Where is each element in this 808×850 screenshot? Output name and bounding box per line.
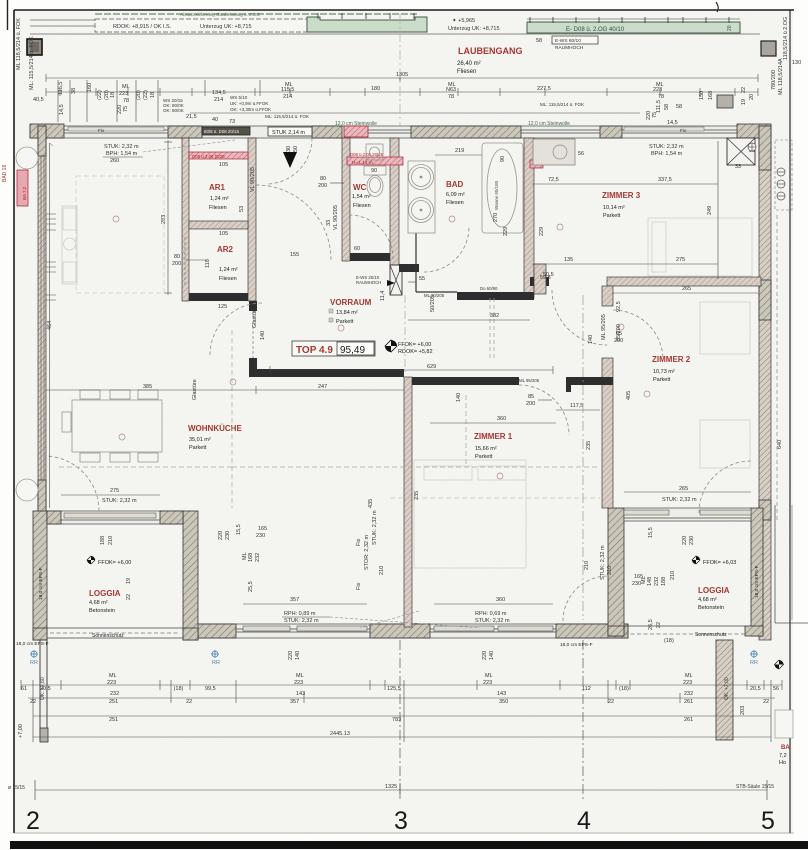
svg-text:BAD: BAD	[446, 180, 464, 189]
svg-text:STUK: 2,32 m: STUK: 2,32 m	[649, 144, 684, 150]
svg-text:629: 629	[427, 364, 436, 370]
svg-text:H=1,14 m: H=1,14 m	[352, 160, 373, 166]
svg-text:20,5: 20,5	[40, 686, 51, 692]
svg-text:VORRAUM: VORRAUM	[330, 298, 372, 307]
svg-text:11,4: 11,4	[380, 291, 386, 301]
svg-text:85/200: 85/200	[616, 324, 622, 341]
svg-text:464: 464	[47, 321, 53, 330]
svg-text:5: 5	[761, 807, 775, 835]
svg-text:RPH: 0,89 m: RPH: 0,89 m	[284, 611, 316, 617]
svg-text:19: 19	[126, 578, 132, 584]
svg-text:210: 210	[607, 566, 613, 575]
svg-text:229: 229	[503, 227, 509, 236]
svg-text:STUK: 2,32 m: STUK: 2,32 m	[102, 498, 137, 504]
svg-text:140: 140	[260, 331, 266, 340]
svg-text:223: 223	[683, 680, 692, 686]
svg-text:UK: +0,9m ü.FFOK: UK: +0,9m ü.FFOK	[230, 101, 268, 106]
svg-text:Parkett: Parkett	[475, 454, 493, 460]
svg-text:105: 105	[219, 162, 228, 168]
svg-text:232: 232	[110, 691, 119, 697]
svg-text:Fix: Fix	[356, 538, 362, 546]
svg-text:261: 261	[684, 699, 693, 705]
svg-text:Parkett: Parkett	[653, 377, 671, 383]
svg-text:WOHNKÜCHE: WOHNKÜCHE	[188, 424, 242, 433]
svg-text:251: 251	[109, 717, 118, 723]
svg-text:265: 265	[679, 486, 688, 492]
svg-text:223: 223	[107, 680, 116, 686]
svg-text:RPH: 0,69 m: RPH: 0,69 m	[475, 611, 507, 617]
svg-text:STUK: 2,32 m: STUK: 2,32 m	[372, 510, 378, 545]
svg-text:118,5/214 ü 2.OG: 118,5/214 ü 2.OG	[783, 17, 789, 60]
svg-text:223: 223	[483, 680, 492, 686]
svg-text:(22): (22)	[97, 90, 103, 100]
svg-text:90: 90	[371, 168, 377, 174]
svg-text:VL 90/205: VL 90/205	[333, 205, 339, 230]
svg-text:|18|: |18|	[174, 686, 183, 692]
svg-text:20,5: 20,5	[750, 686, 761, 692]
svg-text:ML: ML	[122, 84, 130, 90]
svg-text:12,0 cm Steinwolle: 12,0 cm Steinwolle	[335, 121, 377, 127]
svg-text:BAD 18: BAD 18	[2, 165, 8, 182]
svg-text:18,0 cm EPS-F: 18,0 cm EPS-F	[38, 567, 44, 600]
svg-text:STUK 2,14 m: STUK 2,14 m	[272, 130, 305, 136]
svg-text:RR: RR	[30, 660, 38, 666]
svg-text:235: 235	[586, 441, 592, 450]
svg-text:232: 232	[654, 577, 660, 586]
svg-text:ML 95/205: ML 95/205	[601, 314, 607, 340]
svg-text:200: 200	[318, 183, 327, 189]
svg-text:35,01 m²: 35,01 m²	[189, 437, 211, 443]
svg-text:143: 143	[497, 691, 506, 697]
svg-text:33: 33	[326, 220, 332, 226]
svg-text:203: 203	[740, 706, 746, 715]
svg-text:230: 230	[225, 531, 231, 540]
svg-text:RR: RR	[212, 660, 220, 666]
svg-text:58: 58	[536, 38, 542, 44]
svg-text:4,68 m²: 4,68 m²	[698, 597, 717, 603]
svg-text:143: 143	[296, 691, 305, 697]
svg-text:ML: ML	[109, 673, 117, 679]
svg-text:1,54 m²: 1,54 m²	[352, 194, 371, 200]
svg-text:230: 230	[256, 533, 265, 539]
svg-text:Unterzug UK: +8,715: Unterzug UK: +8,715	[448, 26, 500, 32]
svg-text:14,5: 14,5	[59, 104, 65, 115]
svg-text:140: 140	[489, 651, 495, 660]
svg-text:249: 249	[707, 206, 713, 215]
svg-text:168: 168	[708, 91, 714, 100]
svg-text:150: 150	[699, 91, 705, 100]
svg-text:LOGGIA: LOGGIA	[698, 586, 730, 595]
svg-text:125,5: 125,5	[387, 686, 401, 692]
svg-text:260: 260	[110, 158, 119, 164]
svg-text:FFOK= +6,00: FFOK= +6,00	[98, 560, 131, 566]
svg-text:220: 220	[218, 531, 224, 540]
svg-text:247: 247	[318, 384, 327, 390]
svg-text:50,5: 50,5	[543, 272, 554, 278]
svg-text:385: 385	[143, 384, 152, 390]
svg-text:OK: 80/0K: OK: 80/0K	[163, 108, 184, 113]
svg-text:80: 80	[320, 176, 326, 182]
svg-text:RDOK: +8,915 / OK I.S.: RDOK: +8,915 / OK I.S.	[113, 24, 172, 30]
svg-text:251: 251	[109, 699, 118, 705]
svg-text:78: 78	[123, 98, 129, 104]
svg-text:LOGGIA: LOGGIA	[89, 589, 121, 598]
svg-text:435: 435	[368, 499, 374, 508]
svg-text:(18): (18)	[619, 686, 629, 692]
svg-text:350: 350	[499, 699, 508, 705]
svg-text:(18): (18)	[664, 638, 674, 644]
svg-text:Betonstein: Betonstein	[89, 608, 115, 614]
svg-text:38: 38	[71, 88, 77, 94]
svg-text:270: 270	[493, 213, 499, 222]
svg-text:Glastüre: Glastüre	[252, 307, 258, 328]
svg-text:232: 232	[255, 553, 261, 562]
svg-text:50/205: 50/205	[430, 295, 436, 312]
svg-text:220: 220	[682, 536, 688, 545]
svg-text:230: 230	[689, 536, 695, 545]
svg-text:LAUBENGANG: LAUBENGANG	[458, 46, 523, 56]
svg-text:22: 22	[608, 699, 614, 705]
svg-text:111,5: 111,5	[656, 100, 662, 113]
svg-text:(22): (22)	[143, 90, 149, 100]
svg-text:ML: ML	[296, 673, 304, 679]
svg-text:BPH: 1,54 m: BPH: 1,54 m	[106, 151, 138, 157]
svg-text:18,0 cm EPS-F: 18,0 cm EPS-F	[754, 565, 760, 598]
svg-text:72,5: 72,5	[548, 177, 559, 183]
svg-text:18,0 cm EPS-F: 18,0 cm EPS-F	[16, 641, 49, 647]
svg-text:7,2: 7,2	[779, 753, 787, 759]
svg-text:RR: RR	[750, 660, 758, 666]
svg-text:✦ +5,965: ✦ +5,965	[452, 17, 475, 24]
svg-text:10,73 m²: 10,73 m²	[653, 369, 675, 375]
svg-text:90: 90	[500, 156, 506, 162]
svg-text:Sonnenschutz: Sonnenschutz	[695, 632, 727, 638]
svg-text:ZIMMER 3: ZIMMER 3	[602, 191, 641, 200]
svg-text:210: 210	[670, 571, 676, 580]
svg-text:Parkett: Parkett	[603, 213, 621, 219]
svg-text:227,5: 227,5	[537, 86, 551, 92]
svg-text:Fix: Fix	[98, 128, 105, 134]
svg-text:Wanne 80/180: Wanne 80/180	[494, 180, 499, 210]
svg-text:RDOK= +5,82: RDOK= +5,82	[398, 349, 433, 355]
svg-text:265: 265	[682, 286, 691, 292]
svg-text:219: 219	[455, 148, 464, 154]
svg-text:BA 7,2: BA 7,2	[22, 186, 27, 200]
svg-text:+7,00: +7,00	[18, 724, 24, 738]
svg-text:40: 40	[212, 117, 218, 123]
svg-text:140: 140	[456, 393, 462, 402]
svg-text:160: 160	[87, 83, 93, 92]
svg-text:30: 30	[286, 146, 292, 152]
svg-text:21,5: 21,5	[186, 114, 197, 120]
svg-text:26,5: 26,5	[648, 619, 654, 630]
svg-text:223: 223	[653, 87, 662, 93]
svg-text:4,68 m²: 4,68 m²	[89, 600, 108, 606]
svg-text:56: 56	[578, 151, 584, 157]
svg-text:AR1: AR1	[209, 183, 226, 192]
svg-text:Fix: Fix	[356, 582, 362, 590]
svg-text:E-WS 60/10: E-WS 60/10	[555, 38, 581, 44]
svg-text:360: 360	[496, 597, 505, 603]
svg-text:STB-Säule 15/15: STB-Säule 15/15	[736, 784, 774, 790]
svg-text:235: 235	[414, 491, 420, 500]
svg-text:15,5: 15,5	[236, 524, 242, 535]
svg-text:Fliesen: Fliesen	[219, 276, 237, 282]
svg-text:115,5: 115,5	[58, 82, 64, 95]
svg-text:210: 210	[108, 536, 114, 545]
svg-text:Fix: Fix	[680, 128, 687, 134]
svg-text:6,09 m²: 6,09 m²	[446, 192, 465, 198]
svg-text:357: 357	[290, 699, 299, 705]
svg-text:135: 135	[564, 257, 573, 263]
svg-text:BPH: 1,54 m: BPH: 1,54 m	[651, 151, 683, 157]
svg-text:230: 230	[632, 581, 641, 587]
svg-text:210: 210	[584, 561, 590, 570]
svg-text:N63: N63	[446, 87, 456, 93]
svg-text:55: 55	[419, 276, 425, 282]
svg-text:275: 275	[676, 257, 685, 263]
svg-text:15,66 m²: 15,66 m²	[475, 446, 497, 452]
svg-text:1325: 1325	[385, 784, 397, 790]
svg-text:3: 3	[394, 807, 408, 835]
svg-text:Fliesen: Fliesen	[209, 205, 227, 211]
svg-text:640: 640	[777, 440, 783, 449]
svg-text:FFOK= +6,03: FFOK= +6,03	[703, 560, 736, 566]
svg-text:OK: +3,30m ü.FFOK: OK: +3,30m ü.FFOK	[230, 107, 271, 112]
svg-text:STUK: 2,32 m: STUK: 2,32 m	[662, 497, 697, 503]
svg-text:220: 220	[288, 651, 294, 660]
svg-text:200: 200	[172, 261, 181, 267]
svg-text:FFOK= +6,00: FFOK= +6,00	[398, 342, 431, 348]
svg-text:STUK: 2,32 m: STUK: 2,32 m	[284, 618, 319, 624]
svg-text:99,5: 99,5	[205, 686, 216, 692]
svg-text:53: 53	[239, 206, 245, 212]
svg-text:180: 180	[371, 86, 380, 92]
svg-text:Glastüre: Glastüre	[192, 379, 198, 400]
svg-text:25,5: 25,5	[248, 581, 254, 592]
svg-text:22: 22	[763, 699, 769, 705]
svg-text:Parkett: Parkett	[336, 319, 354, 325]
svg-text:22: 22	[30, 699, 36, 705]
svg-text:ZIMMER 1: ZIMMER 1	[474, 432, 513, 441]
svg-text:Fliesen: Fliesen	[446, 200, 464, 206]
svg-text:75: 75	[652, 112, 658, 118]
svg-text:RAUMHOCH: RAUMHOCH	[356, 280, 381, 285]
svg-text:ø 15/15: ø 15/15	[8, 785, 25, 791]
svg-text:WS 5/10: WS 5/10	[230, 95, 248, 100]
svg-text:Betonstein: Betonstein	[698, 605, 724, 611]
svg-text:18: 18	[110, 92, 116, 98]
svg-text:Do 60/90: Do 60/90	[480, 286, 498, 291]
svg-text:Absturzsicherung Glasbrüstung: Absturzsicherung Glasbrüstung ü. 2.OG	[180, 12, 260, 17]
svg-text:78: 78	[658, 94, 664, 100]
svg-text:168: 168	[248, 553, 254, 562]
svg-text:Parkett: Parkett	[189, 445, 207, 451]
svg-text:130: 130	[792, 60, 801, 66]
svg-text:382: 382	[490, 313, 499, 319]
svg-text:ML: ML	[685, 673, 693, 679]
svg-text:ML: 115,5/214 ü. FOK: ML: 115,5/214 ü. FOK	[265, 114, 309, 119]
svg-text:15,5: 15,5	[648, 527, 654, 538]
svg-text:275: 275	[110, 488, 119, 494]
svg-text:26,40 m²: 26,40 m²	[457, 61, 481, 67]
svg-text:E- D08 ü. 2.OG 40/10: E- D08 ü. 2.OG 40/10	[566, 27, 625, 33]
svg-text:D08 ü 2.06 (0/25: D08 ü 2.06 (0/25	[192, 154, 225, 159]
svg-text:22: 22	[126, 594, 132, 600]
svg-text:Fliesen: Fliesen	[457, 69, 476, 75]
svg-text:18,0 cm EPS-F: 18,0 cm EPS-F	[560, 642, 593, 648]
svg-text:56: 56	[773, 686, 779, 692]
svg-text:13,84 m²: 13,84 m²	[336, 310, 358, 316]
svg-text:85: 85	[528, 394, 534, 400]
svg-text:OK: +7,00: OK: +7,00	[724, 677, 730, 700]
svg-text:STOR: 2,32 m: STOR: 2,32 m	[364, 535, 370, 570]
svg-text:214: 214	[283, 94, 292, 100]
svg-text:ZIMMER 2: ZIMMER 2	[652, 355, 691, 364]
svg-text:20: 20	[749, 94, 755, 100]
svg-text:58: 58	[664, 104, 670, 110]
svg-text:WC: WC	[353, 183, 367, 192]
svg-text:20: 20	[727, 25, 733, 31]
svg-text:ML 118,5/214 ü. FOK: ML 118,5/214 ü. FOK	[16, 18, 22, 70]
svg-text:1305: 1305	[396, 72, 408, 78]
svg-text:210: 210	[379, 566, 385, 575]
svg-text:TOP 4.9: TOP 4.9	[296, 345, 333, 356]
svg-text:78: 78	[448, 94, 454, 100]
svg-text:148: 148	[647, 577, 653, 586]
svg-text:BA: BA	[781, 745, 790, 751]
svg-text:95,49: 95,49	[340, 345, 365, 356]
svg-text:92,5: 92,5	[616, 301, 622, 312]
svg-text:4: 4	[577, 807, 591, 835]
svg-text:50: 50	[293, 146, 299, 152]
svg-text:40,5: 40,5	[33, 97, 44, 103]
svg-text:1,24 m²: 1,24 m²	[219, 267, 238, 273]
svg-text:60/8 ü. D08 20/15: 60/8 ü. D08 20/15	[204, 129, 239, 134]
svg-text:22: 22	[656, 622, 662, 628]
svg-text:2445.13: 2445.13	[330, 731, 350, 737]
svg-text:ML 118,5/214A: ML 118,5/214A	[778, 58, 784, 95]
svg-text:337,5: 337,5	[658, 177, 672, 183]
svg-text:73: 73	[229, 119, 235, 125]
svg-text:232: 232	[684, 691, 693, 697]
svg-text:214: 214	[214, 97, 223, 103]
svg-text:165: 165	[258, 526, 267, 532]
svg-text:360: 360	[497, 416, 506, 422]
svg-text:115,5: 115,5	[281, 87, 294, 93]
svg-text:229: 229	[539, 227, 545, 236]
svg-text:ML 95/205: ML 95/205	[519, 378, 540, 383]
svg-text:118: 118	[205, 259, 211, 268]
svg-text:Sonnenschutz: Sonnenschutz	[92, 633, 124, 639]
svg-text:ML: 115,5/214 ü. FOK: ML: 115,5/214 ü. FOK	[540, 102, 584, 107]
svg-text:22: 22	[186, 699, 192, 705]
svg-text:VL 90/205: VL 90/205	[250, 167, 256, 192]
svg-text:134,5: 134,5	[212, 90, 226, 96]
svg-text:188: 188	[100, 536, 106, 545]
svg-text:10,14 m²: 10,14 m²	[603, 205, 625, 211]
svg-text:188: 188	[661, 577, 667, 586]
svg-text:ML: 115,5/214 ü. FOK: ML: 115,5/214 ü. FOK	[29, 36, 35, 90]
svg-text:200: 200	[352, 253, 361, 259]
svg-text:155: 155	[290, 252, 299, 258]
svg-text:STUK: 2,32 m: STUK: 2,32 m	[475, 618, 510, 624]
svg-text:125: 125	[218, 304, 227, 310]
svg-text:AR2: AR2	[217, 245, 234, 254]
svg-text:261: 261	[684, 717, 693, 723]
svg-text:220: 220	[482, 651, 488, 660]
svg-text:60: 60	[354, 246, 360, 252]
svg-text:200: 200	[526, 401, 535, 407]
svg-text:140: 140	[295, 651, 301, 660]
svg-text:75: 75	[123, 106, 129, 112]
svg-text:Ho: Ho	[779, 760, 786, 766]
svg-text:1,24 m²: 1,24 m²	[210, 196, 229, 202]
svg-text:61: 61	[21, 686, 27, 692]
svg-text:223: 223	[119, 91, 128, 97]
svg-text:105: 105	[219, 231, 228, 237]
svg-text:22: 22	[741, 87, 747, 93]
svg-text:Unterzug UK: +8,715: Unterzug UK: +8,715	[200, 24, 252, 30]
svg-text:19: 19	[741, 99, 747, 105]
svg-text:58: 58	[676, 104, 682, 110]
svg-text:Fliesen: Fliesen	[353, 203, 371, 209]
svg-text:STUK: 2,32 m: STUK: 2,32 m	[104, 144, 139, 150]
svg-text:223: 223	[294, 680, 303, 686]
svg-text:2: 2	[26, 807, 40, 835]
svg-text:405: 405	[626, 391, 632, 400]
svg-text:780/200: 780/200	[771, 70, 777, 90]
svg-text:RAUMHOCH: RAUMHOCH	[555, 45, 584, 51]
svg-text:STUK: 2,32 m: STUK: 2,32 m	[600, 545, 606, 580]
svg-text:33: 33	[735, 164, 741, 170]
svg-text:18: 18	[150, 92, 156, 98]
svg-text:ML: ML	[485, 673, 493, 679]
svg-text:357: 357	[290, 597, 299, 603]
svg-text:117,5: 117,5	[570, 403, 583, 409]
svg-text:(20): (20)	[136, 90, 142, 100]
svg-text:12,0 cm Steinwolle: 12,0 cm Steinwolle	[528, 121, 570, 127]
svg-text:14,5: 14,5	[667, 120, 678, 126]
svg-text:80: 80	[174, 254, 180, 260]
svg-text:140: 140	[588, 335, 594, 344]
